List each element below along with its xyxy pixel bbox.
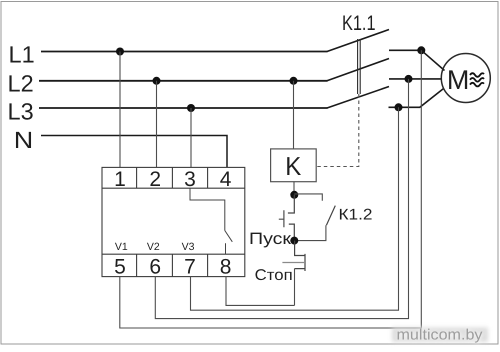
node motor phase 2	[405, 75, 413, 83]
wire L2 to terminal 2	[156, 81, 158, 168]
wire terminal 6 to motor phase 2	[155, 79, 408, 319]
dashed link K1.1 to coil	[316, 94, 359, 167]
wire L3 to terminal 3	[190, 108, 192, 167]
relay internal contact 3-8 wire	[190, 188, 225, 230]
motor waves	[470, 73, 484, 86]
stop button bridge	[282, 262, 305, 264]
svg-text:V3: V3	[182, 241, 195, 253]
svg-text:4: 4	[220, 168, 232, 191]
svg-text:K: K	[285, 151, 302, 181]
contact K1.1 pole 3 blade	[327, 87, 389, 109]
relay top terminal row line	[102, 187, 245, 189]
svg-text:8: 8	[220, 256, 232, 279]
node motor phase 1	[417, 46, 425, 54]
wire stop to rail	[294, 269, 296, 306]
node L2 coil junction	[290, 77, 298, 85]
relay bottom terminal row line	[102, 253, 245, 255]
wire terminal 7 to motor phase 3	[191, 107, 399, 310]
wire terminal 5 to motor phase 1	[120, 50, 422, 328]
svg-text:Пуск: Пуск	[249, 230, 292, 248]
svg-text:L1: L1	[9, 41, 35, 67]
svg-text:V1: V1	[115, 241, 128, 253]
wire branch to K1.2	[294, 194, 322, 201]
wire to motor phase 1	[421, 50, 444, 70]
terminal dividers bottom row	[137, 254, 208, 276]
svg-text:3: 3	[184, 168, 196, 191]
svg-text:6: 6	[149, 256, 161, 279]
node below coil	[290, 191, 298, 199]
svg-text:K1.1: K1.1	[342, 12, 376, 35]
wire N to terminal 4	[41, 136, 227, 168]
relay internal contact lower lead	[225, 243, 227, 254]
wire L3	[39, 107, 328, 109]
node L2 junction	[153, 77, 161, 85]
wire L1 to terminal 1	[119, 52, 121, 168]
start button plunger	[279, 210, 284, 227]
svg-text:2: 2	[149, 168, 161, 191]
node motor phase 3	[395, 103, 403, 111]
svg-text:1: 1	[114, 168, 126, 191]
wire L2 to coil K	[293, 81, 295, 149]
svg-text:multicom.by: multicom.by	[397, 326, 484, 343]
wire L2	[39, 80, 328, 82]
wire L1	[41, 51, 328, 53]
svg-text:V2: V2	[147, 241, 160, 253]
contact K1.2 blade	[326, 206, 335, 226]
relay internal contact blade	[225, 231, 233, 242]
watermark text	[397, 326, 484, 343]
relay box	[102, 167, 245, 276]
wire start to stop jog	[295, 241, 305, 256]
svg-text:5: 5	[114, 256, 126, 279]
svg-text:К1.2: К1.2	[339, 206, 373, 223]
wire terminal 8 to stop rail	[226, 277, 295, 306]
watermark background	[392, 328, 488, 343]
svg-text:L2: L2	[8, 70, 34, 96]
wire coil K to node	[293, 182, 295, 195]
svg-text:7: 7	[184, 256, 196, 279]
contact K1.1 pole 1 blade	[327, 30, 389, 52]
K1.1 linkage bar	[358, 39, 361, 94]
node L3 junction	[187, 104, 195, 112]
start button lower contact	[289, 224, 295, 241]
contact K1.1 pole 2 blade	[327, 59, 389, 81]
wire K1.2 return branch	[294, 225, 326, 240]
svg-text:L3: L3	[8, 98, 34, 124]
stop button contact frame	[295, 254, 306, 271]
node start bottom	[290, 237, 298, 245]
coil K box	[271, 149, 317, 182]
wire K1.1 pole 3 fixed contact	[389, 88, 444, 107]
wire node to start button	[288, 195, 294, 213]
svg-text:M: M	[447, 65, 470, 95]
terminal dividers top row	[137, 167, 208, 188]
wire K1.1 pole 1 fixed contact	[389, 49, 421, 51]
motor M circle	[441, 54, 490, 103]
svg-text:N: N	[14, 127, 34, 153]
wire K1.1 pole 2 fixed contact	[389, 78, 442, 80]
svg-text:Стоп: Стоп	[255, 267, 293, 284]
node L1 junction	[116, 48, 124, 56]
